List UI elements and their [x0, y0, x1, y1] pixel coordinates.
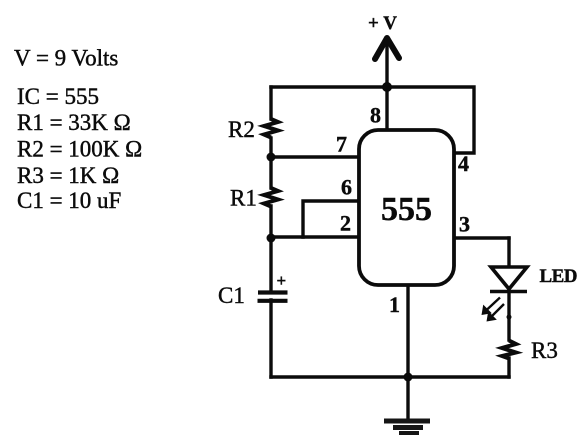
svg-text:555: 555 — [381, 191, 432, 228]
svg-text:R2 = 100K Ω: R2 = 100K Ω — [17, 137, 142, 162]
svg-text:R2: R2 — [228, 117, 255, 142]
svg-text:4: 4 — [458, 151, 469, 176]
svg-text:6: 6 — [341, 175, 352, 200]
svg-text:7: 7 — [336, 132, 347, 157]
svg-text:R1 = 33K Ω: R1 = 33K Ω — [17, 110, 131, 135]
svg-text:IC = 555: IC = 555 — [17, 84, 99, 109]
svg-text:+: + — [277, 271, 287, 290]
svg-text:3: 3 — [459, 212, 470, 237]
svg-text:1: 1 — [389, 292, 400, 317]
svg-text:+ V: + V — [368, 13, 397, 34]
svg-text:2: 2 — [340, 211, 351, 236]
svg-text:LED: LED — [540, 266, 578, 287]
svg-text:8: 8 — [370, 103, 381, 128]
svg-text:R1: R1 — [230, 186, 257, 211]
svg-text:R3: R3 — [531, 338, 558, 363]
svg-text:C1 = 10 uF: C1 = 10 uF — [17, 188, 121, 213]
svg-text:R3 = 1K Ω: R3 = 1K Ω — [17, 163, 119, 188]
svg-text:C1: C1 — [218, 283, 245, 308]
svg-text:V = 9 Volts: V = 9 Volts — [14, 46, 118, 71]
